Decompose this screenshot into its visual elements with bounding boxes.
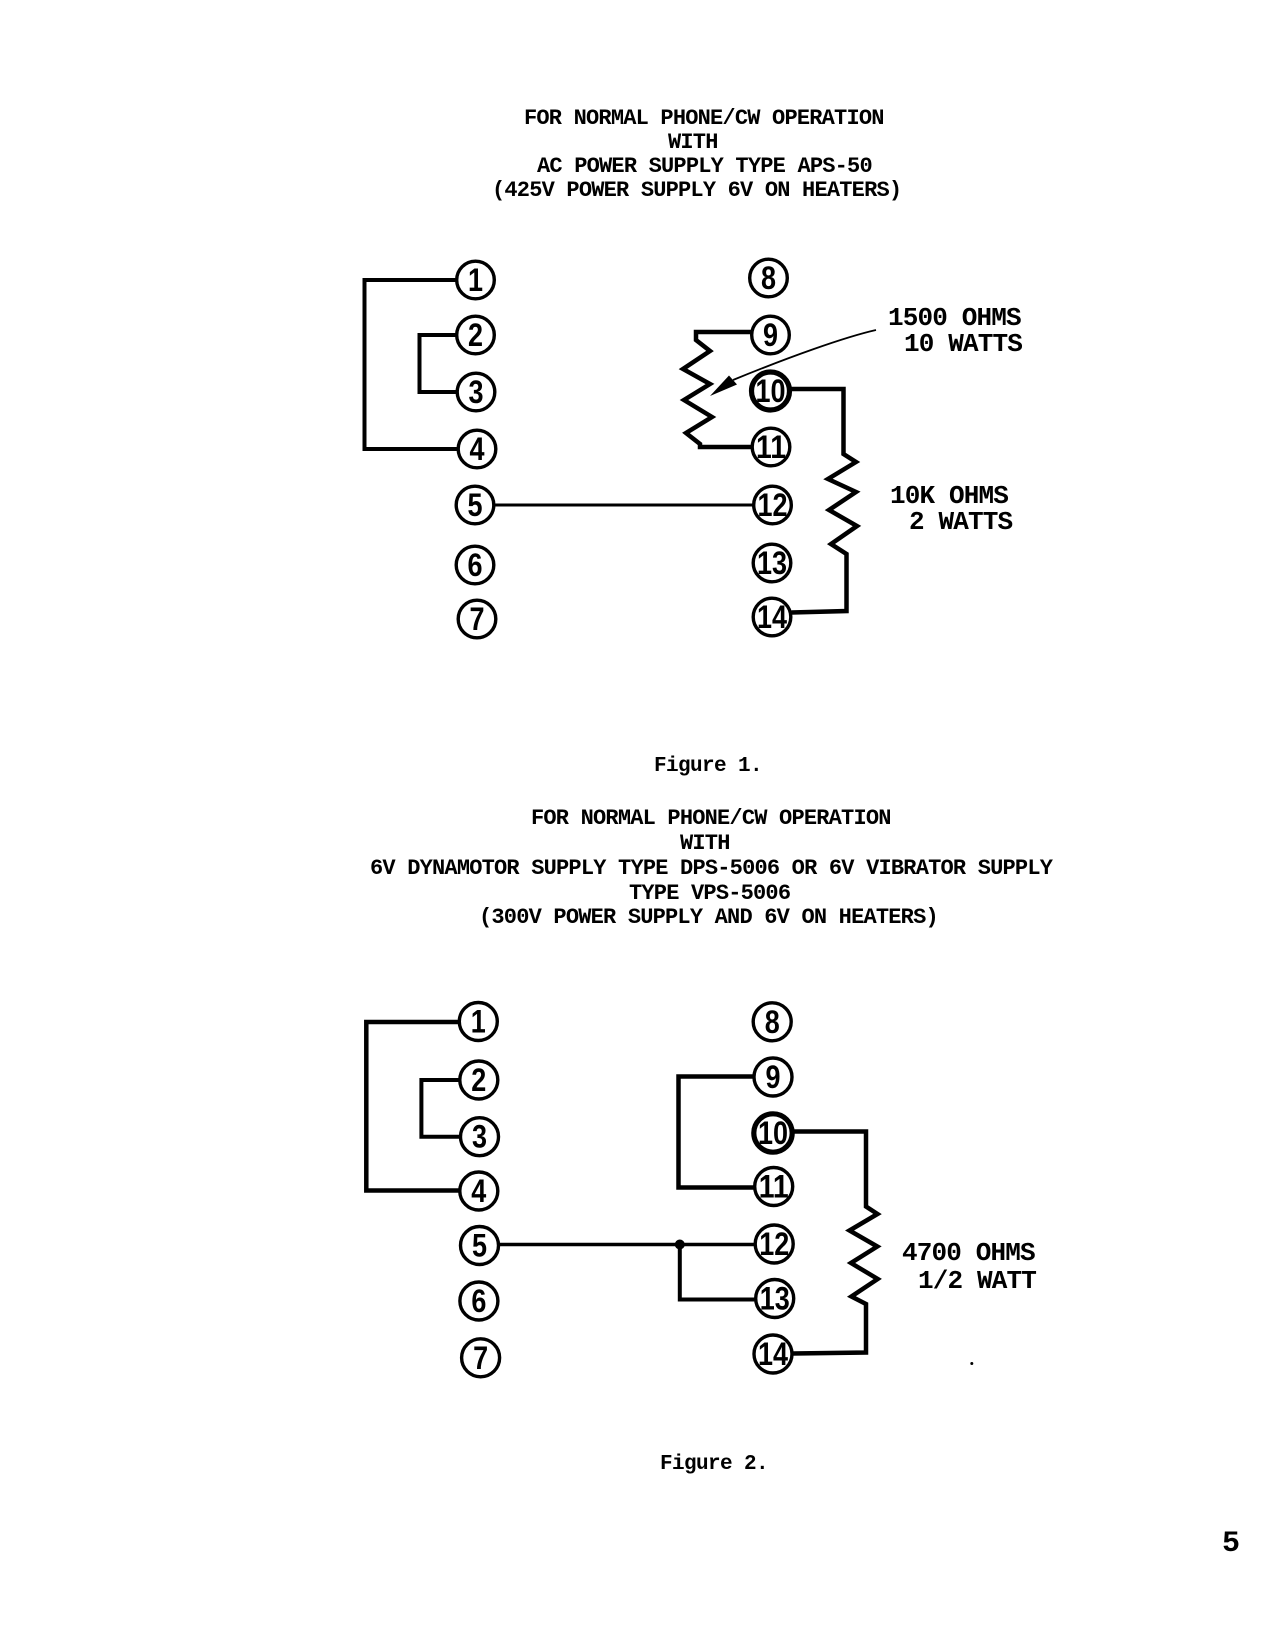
svg-text:5: 5 <box>468 487 483 523</box>
svg-text:TYPE VPS-5006: TYPE VPS-5006 <box>629 881 790 906</box>
svg-text:4: 4 <box>470 431 485 467</box>
svg-text:8: 8 <box>765 1004 780 1040</box>
terminal 10 (fig 1) <box>752 372 790 410</box>
svg-text:7: 7 <box>470 601 485 637</box>
svg-text:10: 10 <box>756 373 786 409</box>
svg-text:4700 OHMS: 4700 OHMS <box>902 1238 1035 1268</box>
terminal 8 (fig 2) <box>753 1003 791 1041</box>
resistor R1 1500 ohms 10 watts (fig 1, between 9 and 11) <box>683 332 752 447</box>
terminal 9 (fig 1) <box>752 316 790 354</box>
svg-text:14: 14 <box>757 599 787 635</box>
terminal 13 (fig 2) <box>756 1280 794 1318</box>
svg-text:1: 1 <box>468 262 483 298</box>
svg-text:WITH: WITH <box>680 831 730 856</box>
wire terminals 5-12 (fig 1) <box>494 504 754 507</box>
svg-text:3: 3 <box>469 374 484 410</box>
resistor R3 4700 ohms 1/2 watt (fig 2, between 10 and 14) <box>793 1132 878 1354</box>
scan speck <box>970 1362 973 1365</box>
svg-text:FOR NORMAL PHONE/CW OPERATION: FOR NORMAL PHONE/CW OPERATION <box>531 806 891 831</box>
svg-text:14: 14 <box>758 1336 788 1372</box>
terminal 12 (fig 1) <box>754 486 792 524</box>
svg-text:(425V POWER SUPPLY 6V ON HEATE: (425V POWER SUPPLY 6V ON HEATERS) <box>492 178 901 203</box>
terminal 6 (fig 1) <box>456 546 494 584</box>
svg-text:WITH: WITH <box>668 130 718 155</box>
terminal 4 (fig 1) <box>458 430 496 468</box>
terminal 3 (fig 2) <box>461 1118 499 1156</box>
svg-text:(300V POWER SUPPLY AND 6V ON H: (300V POWER SUPPLY AND 6V ON HEATERS) <box>479 905 938 930</box>
svg-text:8: 8 <box>761 260 776 296</box>
svg-text:7: 7 <box>473 1340 488 1376</box>
terminal 14 (fig 1) <box>753 598 791 636</box>
svg-text:13: 13 <box>760 1281 790 1317</box>
label R2 value: 10K OHMS 2 WATTS <box>890 481 1013 537</box>
svg-text:10 WATTS: 10 WATTS <box>904 329 1022 359</box>
svg-text:9: 9 <box>766 1059 781 1095</box>
terminal 6 (fig 2) <box>460 1282 498 1320</box>
junction dot on wire 5-12 (fig 2) <box>675 1240 685 1250</box>
svg-text:1: 1 <box>471 1004 486 1040</box>
terminal 12 (fig 2) <box>755 1225 793 1263</box>
terminal 9 (fig 2) <box>754 1058 792 1096</box>
terminal 5 (fig 2) <box>461 1227 499 1265</box>
svg-text:2: 2 <box>471 1062 486 1098</box>
wire terminals 1-4 (fig 2) <box>366 1022 460 1191</box>
terminal 13 (fig 1) <box>753 544 791 582</box>
terminal 7 (fig 2) <box>462 1339 500 1377</box>
terminal 1 (fig 1) <box>457 261 495 299</box>
wire terminals 1-4 (fig 1) <box>365 280 459 449</box>
svg-text:1/2 WATT: 1/2 WATT <box>918 1266 1036 1296</box>
wire terminals 2-3 (fig 2) <box>421 1080 460 1137</box>
svg-text:6: 6 <box>468 547 483 583</box>
svg-text:12: 12 <box>759 1226 789 1262</box>
svg-text:6: 6 <box>471 1283 486 1319</box>
svg-text:11: 11 <box>756 429 786 465</box>
svg-text:Figure 1.: Figure 1. <box>654 755 762 778</box>
svg-text:2 WATTS: 2 WATTS <box>909 507 1013 537</box>
wire terminals 2-3 (fig 1) <box>420 335 458 392</box>
svg-text:Figure 2.: Figure 2. <box>660 1453 768 1476</box>
svg-text:9: 9 <box>763 317 778 353</box>
svg-text:13: 13 <box>757 545 787 581</box>
svg-text:AC POWER SUPPLY TYPE APS-50: AC POWER SUPPLY TYPE APS-50 <box>537 154 872 179</box>
terminal 2 (fig 2) <box>460 1061 498 1099</box>
label R1 value: 1500 OHMS 10 WATTS <box>888 303 1022 359</box>
wire junction to terminal 13 (fig 2) <box>680 1245 756 1300</box>
terminal 14 (fig 2) <box>754 1335 792 1373</box>
svg-text:FOR NORMAL PHONE/CW OPERATION: FOR NORMAL PHONE/CW OPERATION <box>524 106 884 131</box>
svg-text:10: 10 <box>758 1115 788 1151</box>
svg-text:5: 5 <box>1222 1527 1240 1561</box>
terminal 7 (fig 1) <box>458 600 496 638</box>
resistor R2 10K ohms 2 watts (fig 1, between 10 and 14) <box>790 389 858 613</box>
terminal 1 (fig 2) <box>459 1003 497 1041</box>
wire terminals 9-11 (fig 2) <box>679 1077 755 1188</box>
arrow from label to resistor R1 <box>710 330 876 396</box>
terminal 10 (fig 2) <box>754 1114 792 1152</box>
terminal 2 (fig 1) <box>457 316 495 354</box>
terminal 11 (fig 2) <box>755 1168 793 1206</box>
svg-text:11: 11 <box>759 1169 789 1205</box>
terminal 3 (fig 1) <box>457 373 495 411</box>
terminal 8 (fig 1) <box>750 259 788 297</box>
wire terminals 5-12 (fig 2) <box>499 1243 755 1247</box>
svg-text:2: 2 <box>468 317 483 353</box>
terminal 11 (fig 1) <box>752 428 790 466</box>
svg-text:5: 5 <box>472 1228 487 1264</box>
svg-text:12: 12 <box>758 487 788 523</box>
svg-text:4: 4 <box>471 1173 486 1209</box>
terminal 5 (fig 1) <box>456 486 494 524</box>
terminal 4 (fig 2) <box>460 1172 498 1210</box>
label R3 value: 4700 OHMS 1/2 WATT <box>902 1238 1036 1296</box>
svg-text:6V DYNAMOTOR SUPPLY TYPE DPS-5: 6V DYNAMOTOR SUPPLY TYPE DPS-5006 OR 6V … <box>370 856 1054 881</box>
svg-text:3: 3 <box>472 1119 487 1155</box>
